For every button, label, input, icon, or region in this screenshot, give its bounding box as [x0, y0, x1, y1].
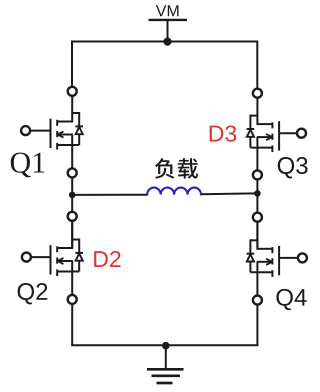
- terminal below Q1: [68, 168, 77, 177]
- terminal above Q3: [253, 89, 262, 98]
- label Q3: [278, 157, 308, 178]
- wire right rail into Q4: [256, 222, 258, 249]
- junction node B (right mid): [254, 190, 261, 197]
- label Q4: [276, 289, 306, 310]
- terminal above Q4: [253, 213, 262, 222]
- terminal above Q1: [68, 87, 77, 96]
- inductor L (load): [147, 188, 201, 195]
- power VM bar: [149, 19, 188, 21]
- junction node A (left mid): [69, 192, 76, 199]
- label Q1: [11, 153, 45, 178]
- wire top rail: [71, 41, 258, 43]
- wire ground stub: [165, 346, 167, 369]
- body diode of Q4: [247, 239, 258, 272]
- transistor Q2: [22, 222, 79, 295]
- wire load right: [201, 192, 258, 195]
- label Q2: [18, 283, 48, 304]
- wire bottom rail: [71, 344, 258, 346]
- diode D2: [72, 239, 83, 272]
- transistor Q1: [21, 96, 79, 168]
- wire left rail lower: [71, 304, 73, 345]
- terminal below Q4: [253, 296, 262, 305]
- wire left rail upper: [71, 42, 73, 87]
- label 负载 (load): [155, 158, 198, 179]
- wire load left: [72, 194, 147, 196]
- label D2: [94, 251, 120, 267]
- ground: [147, 369, 184, 383]
- power VM label: [156, 5, 179, 16]
- wire left rail into Q2: [71, 221, 73, 248]
- diode D3: [247, 115, 258, 148]
- wire left rail to mid junction: [71, 177, 73, 212]
- wire right rail to mid junction: [256, 179, 258, 212]
- transistor Q4: [250, 223, 307, 296]
- terminal below Q3: [253, 170, 262, 179]
- wire VM stub: [167, 20, 169, 42]
- transistor Q3: [250, 99, 306, 172]
- wire right rail lower: [256, 305, 258, 346]
- junction ground / bottom rail: [162, 342, 170, 350]
- body diode of Q1: [72, 112, 83, 145]
- label D3: [210, 125, 237, 141]
- junction VM / top rail: [163, 38, 171, 46]
- terminal below Q2: [68, 295, 77, 304]
- wire right rail upper: [256, 42, 258, 89]
- terminal above Q2: [68, 212, 77, 221]
